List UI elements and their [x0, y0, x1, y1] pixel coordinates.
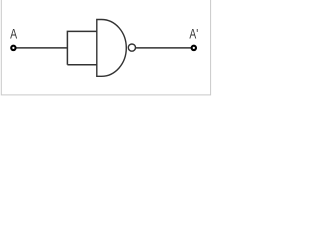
nand gate U1 inversion bubble	[128, 44, 135, 51]
nand gate U1 body	[97, 20, 127, 77]
node A terminal	[11, 46, 15, 50]
svg-text:A': A'	[189, 26, 198, 42]
wire: input node A to tied-inputs splitter	[13, 47, 67, 49]
frame border (top edge cropped off)	[1, 0, 210, 95]
node A' terminal	[192, 46, 196, 50]
wire: splitter loop tying both NAND inputs together	[67, 31, 96, 64]
wire: bubble to output node A'	[136, 47, 194, 49]
svg-text:A: A	[10, 26, 17, 42]
